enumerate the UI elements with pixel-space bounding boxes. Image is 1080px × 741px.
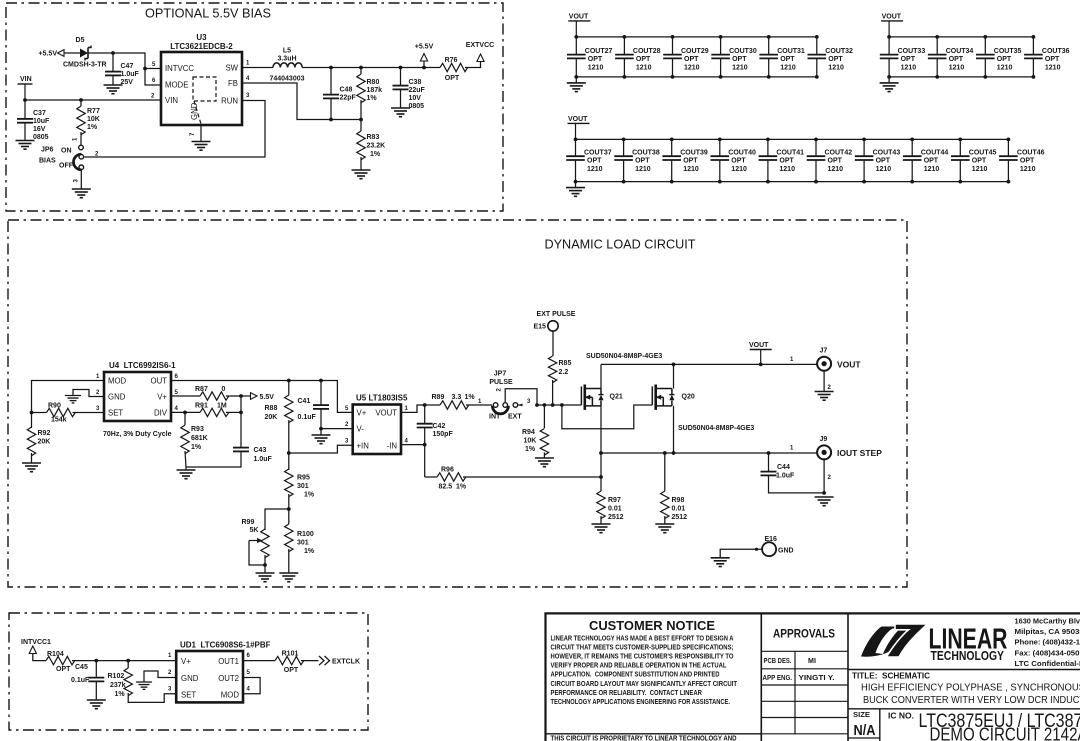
svg-text:V+: V+ xyxy=(157,393,167,402)
wire Q21 drain up xyxy=(600,364,602,388)
wire capacitor COUT41 leads xyxy=(767,139,769,156)
svg-text:HIGH EFFICIENCY POLYPHASE , SY: HIGH EFFICIENCY POLYPHASE , SYNCHRONOUS xyxy=(861,683,1080,694)
wire bottom bus COUT37 bank xyxy=(576,181,1009,183)
wire DIV pin to R91 xyxy=(171,411,200,413)
wire capacitor COUT31 leads xyxy=(768,37,770,55)
svg-text:RUN: RUN xyxy=(221,97,238,106)
junction R99 bottom xyxy=(263,563,267,567)
svg-text:R94: R94 xyxy=(522,429,535,436)
svg-text:R97: R97 xyxy=(608,497,621,504)
junction R95 R99 R100 xyxy=(287,507,291,511)
junction E16 wire xyxy=(755,548,758,551)
junction VOUT tick xyxy=(759,363,763,367)
junction Q21 source xyxy=(599,451,603,455)
svg-text:VIN: VIN xyxy=(20,76,32,83)
svg-text:1%: 1% xyxy=(304,492,315,499)
svg-text:J9: J9 xyxy=(820,436,828,443)
ground under R99 xyxy=(256,572,275,574)
svg-text:1210: 1210 xyxy=(588,65,604,72)
svg-text:1210: 1210 xyxy=(1020,166,1036,173)
capacitor COUT30 xyxy=(711,54,730,56)
svg-text:1210: 1210 xyxy=(924,166,940,173)
svg-text:V+: V+ xyxy=(181,657,191,666)
wire ground stem bank COUT37 xyxy=(575,182,577,188)
svg-text:VOUT: VOUT xyxy=(749,342,769,349)
capacitor COUT35 xyxy=(976,54,995,56)
svg-text:R89: R89 xyxy=(432,394,445,401)
resistor R100 xyxy=(285,524,293,552)
svg-text:L5: L5 xyxy=(283,48,291,55)
wire bottom bus COUT27 bank xyxy=(576,76,817,78)
svg-text:C43: C43 xyxy=(254,447,267,454)
junction COUT42 bottom xyxy=(814,180,818,184)
svg-text:OPT: OPT xyxy=(636,56,651,63)
wire R90 to SET xyxy=(73,412,105,414)
svg-text:JP7: JP7 xyxy=(494,371,507,378)
junction COUT30 bottom xyxy=(719,75,723,79)
svg-text:FB: FB xyxy=(228,79,238,88)
junction COUT40 bottom xyxy=(718,180,722,184)
svg-text:N/A: N/A xyxy=(854,722,876,739)
wire C41 ground stub xyxy=(320,429,322,435)
junction COUT39 top xyxy=(670,138,674,142)
junction COUT33 top xyxy=(887,35,891,39)
junction Q20 drain xyxy=(672,363,676,367)
junction Q20 source xyxy=(672,451,676,455)
svg-text:Q21: Q21 xyxy=(610,394,623,401)
svg-text:COUT32: COUT32 xyxy=(825,48,853,55)
net stub VOUT bank COUT27 xyxy=(568,20,590,22)
wire R92 bottom xyxy=(31,453,33,463)
junction COUT32 bottom xyxy=(815,75,819,79)
svg-text:SIZE: SIZE xyxy=(853,710,870,719)
svg-text:OPT: OPT xyxy=(779,158,794,165)
svg-text:OPT: OPT xyxy=(732,56,747,63)
svg-text:Fax: (408)434-0507: Fax: (408)434-0507 xyxy=(1015,648,1080,657)
wire down to R96 xyxy=(424,445,426,477)
svg-text:COUT30: COUT30 xyxy=(729,48,757,55)
capacitor COUT41 xyxy=(759,155,778,157)
wire R83 top stub xyxy=(360,120,362,132)
svg-text:681K: 681K xyxy=(191,435,208,442)
capacitor COUT33 xyxy=(880,54,899,56)
capacitor COUT27 xyxy=(567,54,586,56)
junction R88 R95 +IN xyxy=(287,451,291,455)
wire capacitor COUT37 leads xyxy=(575,139,577,156)
svg-text:Q20: Q20 xyxy=(682,394,695,401)
junction COUT45 top xyxy=(958,138,962,142)
junction J9 pin2 C44 xyxy=(822,491,826,495)
junction R80 top xyxy=(359,66,363,70)
svg-text:COUT41: COUT41 xyxy=(776,150,804,157)
svg-text:1210: 1210 xyxy=(949,65,965,72)
capacitor COUT39 xyxy=(662,155,681,157)
svg-text:OPT: OPT xyxy=(445,75,460,82)
svg-text:LINEAR TECHNOLOGY HAS MADE A B: LINEAR TECHNOLOGY HAS MADE A BEST EFFORT… xyxy=(551,635,734,643)
ground under J7 xyxy=(815,391,834,393)
resistor R87 xyxy=(200,392,229,400)
resistor R97 xyxy=(597,491,605,519)
svg-text:TITLE: SCHEMATIC: TITLE: SCHEMATIC xyxy=(852,672,930,681)
svg-text:COUT29: COUT29 xyxy=(681,48,709,55)
wire drain VOUT line xyxy=(601,363,817,365)
svg-text:1210: 1210 xyxy=(587,166,603,173)
junction C45 xyxy=(94,659,98,663)
wire Q20 gate detour xyxy=(562,405,652,429)
wire +5.5V to D5 anode xyxy=(64,52,80,54)
wire C43 stem top xyxy=(240,412,242,447)
wire R77 top xyxy=(80,100,82,106)
wire R83 bottom stub xyxy=(360,157,362,170)
wire R87 to 5.5V arrow xyxy=(226,395,250,397)
svg-text:OPT: OPT xyxy=(876,158,891,165)
svg-text:HOWEVER, IT REMAINS THE CUSTOM: HOWEVER, IT REMAINS THE CUSTOMER'S RESPO… xyxy=(551,653,734,661)
capacitor C45 xyxy=(88,677,104,679)
capacitor C43 xyxy=(233,447,249,449)
wire capacitor COUT35 leads xyxy=(984,37,986,55)
svg-text:CIRCUIT THAT MEETS CUSTOMER-SU: CIRCUIT THAT MEETS CUSTOMER-SUPPLIED SPE… xyxy=(551,644,734,652)
junction COUT45 bottom xyxy=(958,180,962,184)
junction INTVCC pin xyxy=(143,67,147,71)
svg-text:COUT27: COUT27 xyxy=(585,48,613,55)
svg-text:OPT: OPT xyxy=(56,666,71,673)
wire R91 right xyxy=(226,411,241,413)
svg-text:CMDSH-3-TR: CMDSH-3-TR xyxy=(63,62,107,69)
title block outer border xyxy=(546,613,1080,741)
customer notice cell border xyxy=(760,613,762,741)
wire U3 GND pin 7 xyxy=(200,125,202,141)
wire R98 top xyxy=(664,453,666,491)
svg-text:COUT34: COUT34 xyxy=(946,48,974,55)
wire capacitor COUT27 leads xyxy=(575,37,577,55)
wire OUT net xyxy=(171,381,353,413)
svg-text:YINGTI Y.: YINGTI Y. xyxy=(799,674,835,682)
junction COUT28 bottom xyxy=(623,75,627,79)
svg-text:E16: E16 xyxy=(765,536,778,543)
ground under R83 xyxy=(352,169,371,171)
junction COUT43 top xyxy=(862,138,866,142)
svg-text:82.5: 82.5 xyxy=(439,484,453,491)
logo Linear Technology LT glyph xyxy=(861,627,914,657)
svg-text:1%: 1% xyxy=(456,484,467,491)
svg-text:THIS CIRCUIT IS PROPRIETARY TO: THIS CIRCUIT IS PROPRIETARY TO LINEAR TE… xyxy=(551,735,737,741)
svg-text:OPT: OPT xyxy=(635,158,650,165)
svg-text:GND: GND xyxy=(778,548,794,555)
wire capacitor COUT44 leads xyxy=(911,139,913,156)
svg-text:1%: 1% xyxy=(525,446,536,453)
svg-text:1210: 1210 xyxy=(683,166,699,173)
resistor R90 xyxy=(47,408,76,416)
ground under C45 xyxy=(87,699,106,701)
wire capacitor COUT46 leads xyxy=(1007,139,1009,156)
svg-text:JP6: JP6 xyxy=(41,147,54,154)
svg-text:301: 301 xyxy=(297,540,309,547)
capacitor COUT36 xyxy=(1024,54,1043,56)
svg-text:UD1 LTC6908S6-1#PBF: UD1 LTC6908S6-1#PBF xyxy=(180,641,271,650)
svg-text:OPT: OPT xyxy=(828,158,843,165)
svg-text:R90: R90 xyxy=(48,403,61,410)
connector J9 xyxy=(817,445,831,459)
wire C42 stem xyxy=(424,405,426,423)
wire Q20 drain up xyxy=(673,364,675,388)
svg-text:-IN: -IN xyxy=(387,442,397,451)
svg-text:16V: 16V xyxy=(33,126,46,133)
wire 5.5V node vertical xyxy=(240,396,242,412)
svg-text:10K: 10K xyxy=(87,116,100,123)
svg-text:1210: 1210 xyxy=(636,65,652,72)
svg-text:COUT43: COUT43 xyxy=(873,150,901,157)
IC UD1 LTC6908S6-1#PBF body xyxy=(176,651,243,702)
wire R93 top stub xyxy=(184,412,186,425)
resistor R94 xyxy=(540,429,548,456)
svg-text:154k: 154k xyxy=(51,417,67,424)
junction R96 R97 xyxy=(599,475,603,479)
svg-text:R92: R92 xyxy=(38,430,51,437)
junction COUT36 bottom xyxy=(1032,75,1036,79)
wire -IN pin xyxy=(401,444,425,446)
svg-text:22pF: 22pF xyxy=(340,95,357,102)
capacitor COUT29 xyxy=(663,54,682,56)
junction COUT35 top xyxy=(983,35,987,39)
svg-text:COUT39: COUT39 xyxy=(680,150,708,157)
terminal E15 EXT PULSE xyxy=(548,321,558,331)
svg-text:1%: 1% xyxy=(304,548,315,555)
capacitor C44 xyxy=(761,471,777,473)
wire top bus COUT37 bank xyxy=(576,138,1009,140)
junction R90 R92 MOD xyxy=(30,411,34,415)
ground under U3 pin7 xyxy=(192,141,211,143)
resistor R102 xyxy=(124,668,132,696)
wire R97 bottom xyxy=(600,516,602,524)
svg-text:U4 LTC6992IS6-1: U4 LTC6992IS6-1 xyxy=(109,361,176,370)
junction COUT39 bottom xyxy=(670,180,674,184)
wire C48 stem bottom xyxy=(330,99,332,120)
svg-text:R101: R101 xyxy=(282,651,299,658)
svg-text:MOD: MOD xyxy=(221,691,240,700)
svg-text:BIAS: BIAS xyxy=(39,158,56,165)
wire R100 bottom xyxy=(288,549,290,573)
ground under R100 xyxy=(279,572,298,574)
resistor R80 xyxy=(357,74,365,103)
wire R99 branch xyxy=(265,509,289,530)
diode D5 CMDSH-3-TR xyxy=(80,49,88,58)
capacitor C37 xyxy=(17,118,33,120)
ground bank COUT37 xyxy=(566,187,585,189)
junction COUT32 top xyxy=(815,35,819,39)
svg-text:1%: 1% xyxy=(191,444,202,451)
svg-text:0805: 0805 xyxy=(33,134,49,141)
svg-text:OPT: OPT xyxy=(780,56,795,63)
junction R88 top xyxy=(287,379,291,383)
svg-text:LTC Confidential-F: LTC Confidential-F xyxy=(1015,659,1080,668)
wire R80 top stub xyxy=(360,68,362,75)
svg-text:0: 0 xyxy=(222,386,226,393)
wire C47 stem xyxy=(112,53,114,71)
capacitor COUT40 xyxy=(711,155,730,157)
wire to R76 xyxy=(424,67,440,69)
op-amp U5 LT1803IS5 body xyxy=(353,405,401,455)
svg-text:IC NO.: IC NO. xyxy=(888,711,914,721)
wire capacitor COUT36 leads xyxy=(1032,37,1034,55)
svg-text:COUT38: COUT38 xyxy=(632,150,660,157)
inductor L5 xyxy=(273,63,302,68)
wire capacitor COUT40 leads xyxy=(719,139,721,156)
junction R102 xyxy=(126,659,130,663)
svg-text:70Hz, 3% Duty Cycle: 70Hz, 3% Duty Cycle xyxy=(103,431,172,438)
wire U5 VOUT jog xyxy=(401,405,425,412)
svg-text:SW: SW xyxy=(225,64,238,73)
svg-text:APP ENG.: APP ENG. xyxy=(763,674,793,682)
svg-text:OPT: OPT xyxy=(924,158,939,165)
IC U4 LTC6992IS6-1 body xyxy=(104,372,171,421)
junction R94 xyxy=(543,403,547,407)
svg-text:COUT37: COUT37 xyxy=(584,150,612,157)
svg-text:OPT: OPT xyxy=(972,158,987,165)
capacitor COUT38 xyxy=(614,155,633,157)
wire capacitor COUT33 leads xyxy=(888,37,890,55)
svg-text:187k: 187k xyxy=(367,87,383,94)
junction COUT36 top xyxy=(1032,35,1036,39)
svg-text:1210: 1210 xyxy=(828,65,844,72)
svg-text:V+: V+ xyxy=(357,409,367,418)
svg-text:OPT: OPT xyxy=(949,56,964,63)
svg-text:EXT PULSE: EXT PULSE xyxy=(537,311,576,318)
resistor R77 xyxy=(77,106,85,135)
wire R99 bottom xyxy=(264,555,266,573)
ground bank COUT27 xyxy=(567,82,586,84)
svg-text:OPT: OPT xyxy=(1045,56,1060,63)
svg-text:SUD50N04-8M8P-4GE3: SUD50N04-8M8P-4GE3 xyxy=(586,353,662,360)
power arrow EXTVCC xyxy=(477,54,484,62)
wire C42 bottom xyxy=(424,428,426,445)
svg-text:C48: C48 xyxy=(340,87,353,94)
wire C38 to ground xyxy=(400,90,402,108)
wire capacitor COUT42 leads xyxy=(815,139,817,156)
resistor R76 xyxy=(440,63,468,71)
svg-text:EXT: EXT xyxy=(508,414,522,421)
svg-text:R88: R88 xyxy=(265,405,278,412)
net arrow EXTCLK xyxy=(319,656,330,665)
wire U4 GND pin jog xyxy=(73,390,104,397)
wire C48 stem top xyxy=(330,68,332,95)
capacitor COUT42 xyxy=(807,155,826,157)
svg-text:1210: 1210 xyxy=(732,65,748,72)
wire R93 bottom xyxy=(185,451,186,470)
svg-text:R100: R100 xyxy=(297,531,314,538)
wire INTVCC1 to R104 xyxy=(33,654,46,661)
capacitor COUT46 xyxy=(999,155,1018,157)
svg-text:OFF: OFF xyxy=(59,163,74,170)
svg-text:Phone: (408)432-1: Phone: (408)432-1 xyxy=(1015,638,1080,647)
ground under R94 xyxy=(535,457,554,459)
svg-text:301: 301 xyxy=(297,483,309,490)
junction +5.5V arrow xyxy=(422,66,426,70)
wire J9 pin2 down xyxy=(823,459,825,493)
wire R100 top stub xyxy=(288,509,290,524)
svg-text:OPT: OPT xyxy=(1020,158,1035,165)
terminal E16 GND xyxy=(762,542,776,556)
wire R98 bottom xyxy=(664,516,666,524)
wire R102 bottom xyxy=(128,693,176,702)
svg-text:1210: 1210 xyxy=(779,166,795,173)
svg-text:R85: R85 xyxy=(559,360,572,367)
svg-text:VIN: VIN xyxy=(165,96,178,105)
wire R88 top stub xyxy=(288,381,290,396)
junction C47 top xyxy=(111,51,115,55)
svg-text:20K: 20K xyxy=(38,439,51,446)
ground under R97 xyxy=(592,523,611,525)
resistor R88 xyxy=(285,395,293,423)
svg-text:EXTCLK: EXTCLK xyxy=(332,659,360,666)
svg-text:BUCK CONVERTER WITH VERY LOW D: BUCK CONVERTER WITH VERY LOW DCR INDUCT xyxy=(863,695,1080,706)
junction JP7 bridge main line xyxy=(535,403,539,407)
svg-text:0.1uF: 0.1uF xyxy=(298,414,317,421)
junction R87 C43 node xyxy=(239,394,243,398)
wire capacitor COUT38 leads xyxy=(623,139,625,156)
svg-text:VOUT: VOUT xyxy=(569,13,589,20)
wire R96 left stub xyxy=(425,476,437,478)
junction COUT38 top xyxy=(622,138,626,142)
power arrow INTVCC1 xyxy=(29,646,36,654)
capacitor C38 xyxy=(393,85,409,87)
transistor Q21 SUD50N04-8M8P-4GE3 xyxy=(580,386,582,405)
svg-text:SET: SET xyxy=(108,409,123,418)
wire R89 left stub xyxy=(425,404,440,406)
junction COUT27 top xyxy=(574,35,578,39)
svg-text:TECHNOLOGY: TECHNOLOGY xyxy=(931,649,1005,663)
net stub VOUT bank COUT37 xyxy=(568,122,590,124)
wire INTVCC pin 5 xyxy=(145,68,161,70)
capacitor COUT37 xyxy=(566,155,585,157)
svg-text:3.3: 3.3 xyxy=(452,394,462,401)
ground under R93 xyxy=(177,469,196,471)
junction C48 top xyxy=(329,66,333,70)
wire MOD pin loop xyxy=(32,381,105,407)
svg-text:IOUT STEP: IOUT STEP xyxy=(837,448,882,458)
ground under R98 xyxy=(655,523,674,525)
ground under C38 xyxy=(391,107,410,109)
wire SW pin to L5 xyxy=(242,67,273,69)
wire R77 bottom to JP6 xyxy=(80,132,82,145)
junction E15 R85 xyxy=(551,403,555,407)
svg-text:0.01: 0.01 xyxy=(608,506,622,513)
wire JP7 bridge xyxy=(505,389,537,405)
svg-text:1630 McCarthy Blv: 1630 McCarthy Blv xyxy=(1015,617,1080,626)
svg-text:25V: 25V xyxy=(121,79,134,86)
svg-text:R96: R96 xyxy=(441,467,454,474)
svg-text:23.2K: 23.2K xyxy=(367,143,386,150)
svg-text:J7: J7 xyxy=(820,348,828,355)
wire Q21 source to R97 xyxy=(600,453,602,491)
svg-text:COUT36: COUT36 xyxy=(1042,48,1070,55)
svg-text:R77: R77 xyxy=(87,108,100,115)
capacitor COUT32 xyxy=(808,54,827,56)
svg-text:+IN: +IN xyxy=(357,442,369,451)
wire J7 pin2 to ground xyxy=(823,371,825,391)
junction DIV R93 xyxy=(183,411,187,415)
junction C44 top xyxy=(767,451,771,455)
svg-text:D5: D5 xyxy=(76,37,85,44)
wire FB pin to divider xyxy=(242,83,361,120)
wire V+ pin to R87 xyxy=(171,395,200,397)
svg-text:CIRCUIT BOARD LAYOUT MAY SIGNI: CIRCUIT BOARD LAYOUT MAY SIGNIFICANTLY A… xyxy=(551,680,738,688)
svg-text:VOUT: VOUT xyxy=(837,360,861,370)
wire capacitor COUT28 leads xyxy=(623,37,625,55)
wire L5 to +5.5V rail xyxy=(302,67,424,69)
svg-text:22uF: 22uF xyxy=(409,87,426,94)
svg-text:MODE: MODE xyxy=(165,81,188,90)
ground under J9 xyxy=(815,496,834,498)
